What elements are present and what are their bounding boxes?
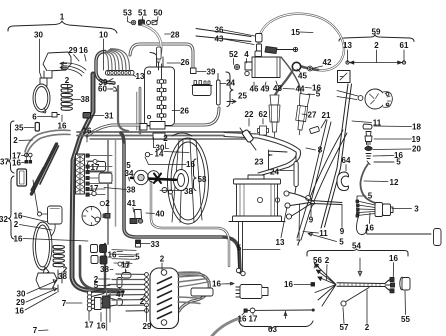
svg-text:20: 20 [412,145,421,154]
svg-text:38: 38 [58,272,67,281]
svg-text:11: 11 [319,229,328,238]
svg-text:61: 61 [400,41,409,50]
svg-text:2: 2 [160,255,165,264]
svg-text:1: 1 [60,13,65,22]
svg-text:22: 22 [245,110,254,119]
svg-text:2: 2 [374,41,379,50]
svg-text:64: 64 [342,156,351,165]
svg-text:44: 44 [296,85,305,94]
svg-text:2: 2 [325,256,330,265]
svg-text:16: 16 [79,46,88,55]
svg-text:2: 2 [13,136,18,145]
svg-text:31: 31 [105,112,114,121]
svg-text:60: 60 [98,85,107,94]
svg-text:4: 4 [244,50,249,59]
svg-text:38: 38 [184,187,193,196]
svg-text:6: 6 [32,113,37,122]
svg-text:5: 5 [135,253,140,262]
svg-text:62: 62 [259,110,268,119]
svg-text:7: 7 [62,299,67,308]
svg-text:53: 53 [123,9,132,18]
svg-text:49: 49 [261,85,270,94]
svg-text:2: 2 [163,134,168,143]
svg-text:27: 27 [308,111,317,120]
svg-text:5: 5 [396,158,401,167]
svg-text:39: 39 [207,68,216,77]
svg-text:42: 42 [323,58,332,67]
svg-text:38: 38 [127,186,136,195]
svg-text:56: 56 [313,256,322,265]
svg-text:8: 8 [318,146,323,155]
svg-text:5: 5 [126,161,131,170]
svg-text:23: 23 [255,158,264,167]
svg-text:19: 19 [412,135,421,144]
svg-text:5: 5 [339,238,344,247]
svg-text:54: 54 [352,242,361,251]
svg-text:57: 57 [340,323,349,332]
svg-text:43: 43 [215,35,224,44]
svg-text:17: 17 [121,261,130,270]
svg-text:10: 10 [99,31,108,40]
svg-text:16: 16 [97,322,106,331]
svg-text:52: 52 [229,50,238,59]
svg-text:9: 9 [309,216,314,225]
svg-text:9: 9 [340,227,345,236]
svg-text:17: 17 [91,163,100,172]
svg-text:38: 38 [100,265,109,274]
svg-text:16: 16 [15,307,24,316]
svg-text:32: 32 [0,215,8,224]
svg-text:15: 15 [291,28,300,37]
svg-text:5: 5 [94,281,99,290]
svg-text:51: 51 [138,9,147,18]
svg-text:7: 7 [33,326,38,335]
svg-text:16: 16 [389,254,398,263]
svg-text:29: 29 [143,322,152,331]
svg-text:16: 16 [212,280,221,289]
svg-text:58: 58 [198,175,207,184]
svg-text:26: 26 [180,107,189,116]
svg-text:63: 63 [268,325,277,334]
svg-text:17: 17 [90,184,99,193]
svg-text:24: 24 [270,168,279,177]
svg-text:16: 16 [108,251,117,260]
svg-text:2: 2 [365,323,370,332]
svg-text:34: 34 [125,169,134,178]
svg-text:41: 41 [127,199,136,208]
svg-text:29: 29 [69,46,78,55]
svg-text:2: 2 [14,220,19,229]
svg-text:28: 28 [171,31,180,40]
svg-text:59: 59 [372,28,381,37]
svg-text:12: 12 [390,178,399,187]
svg-text:17: 17 [85,321,94,330]
svg-text:16: 16 [284,280,293,289]
svg-text:16: 16 [58,122,67,131]
svg-text:38: 38 [81,95,90,104]
svg-text:17: 17 [249,315,258,324]
svg-text:40: 40 [156,210,165,219]
svg-text:5: 5 [368,192,373,201]
svg-text:36: 36 [215,26,224,35]
svg-text:46: 46 [250,85,259,94]
svg-text:16: 16 [186,160,195,169]
svg-text:55: 55 [401,315,410,324]
svg-text:11: 11 [373,119,382,128]
svg-text:18: 18 [412,123,421,132]
svg-text:13: 13 [343,41,352,50]
svg-text:16: 16 [12,159,21,168]
svg-text:25: 25 [238,92,247,101]
svg-text:45: 45 [298,72,307,81]
svg-text:2: 2 [65,76,70,85]
svg-text:16: 16 [365,224,374,233]
svg-text:2: 2 [105,199,110,208]
svg-text:37: 37 [0,158,9,167]
svg-text:16: 16 [238,315,247,324]
svg-text:50: 50 [154,9,163,18]
svg-text:5: 5 [237,244,242,253]
svg-text:33: 33 [151,240,160,249]
svg-text:26: 26 [181,58,190,67]
svg-text:5: 5 [316,90,321,99]
svg-text:48: 48 [273,84,282,93]
svg-text:2: 2 [140,297,145,306]
svg-text:16: 16 [14,235,23,244]
svg-text:7: 7 [296,239,301,248]
svg-text:30: 30 [34,31,43,40]
svg-text:35: 35 [15,124,24,133]
svg-text:47: 47 [116,290,125,299]
svg-text:24: 24 [226,79,235,88]
svg-text:16: 16 [83,127,92,136]
svg-text:14: 14 [155,150,164,159]
svg-text:13: 13 [276,238,285,247]
svg-text:21: 21 [322,111,331,120]
svg-text:3: 3 [414,205,419,214]
svg-text:13: 13 [136,72,145,81]
